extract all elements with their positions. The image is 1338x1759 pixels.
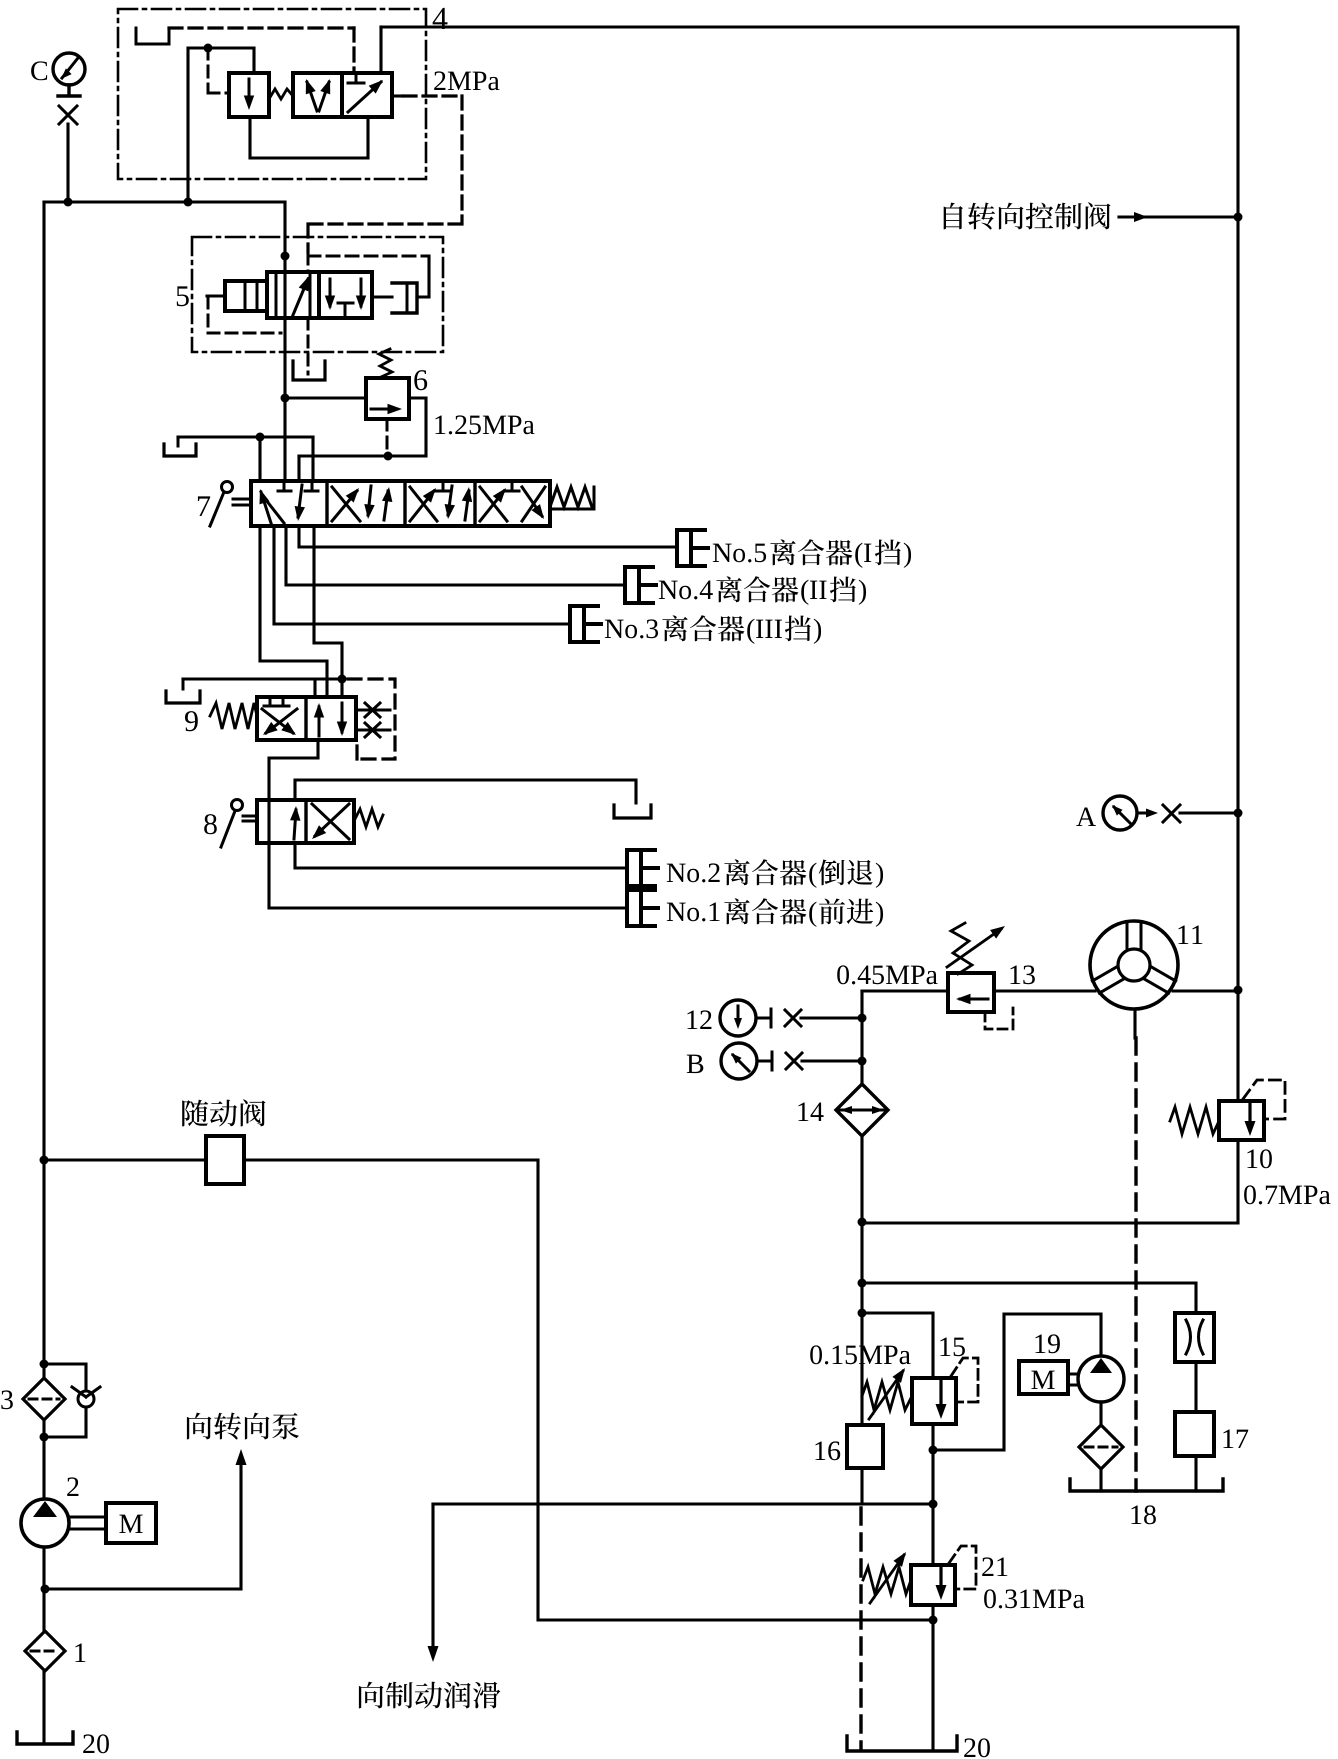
label 16 — [815, 1441, 840, 1460]
valve 9 spring — [210, 703, 257, 729]
node valve6 loop junction — [384, 452, 393, 461]
tank under valve 5 — [293, 361, 325, 380]
pilot dashed line box4 top — [169, 26, 354, 29]
label No.2 clutch — [667, 863, 720, 882]
label 0.31MPa — [984, 1589, 1084, 1608]
pump 2 — [21, 1499, 69, 1547]
wire 16 to lube line — [860, 1468, 863, 1504]
label 2MPa — [434, 71, 499, 90]
label 2 — [67, 1477, 78, 1496]
gauge A arrow symbol — [1137, 812, 1152, 815]
valve 13 pilot dashed — [985, 1008, 1013, 1029]
label 13 — [1010, 965, 1034, 984]
valve 4 spring — [269, 89, 293, 99]
wire No.3 clutch line — [274, 526, 570, 624]
dashed drain 16 to tank — [859, 1508, 862, 1748]
wire 13 to motor 11 — [994, 989, 1095, 992]
label 19 — [1035, 1334, 1059, 1353]
label 3 — [1, 1390, 13, 1409]
node y1313 junction — [858, 1309, 867, 1318]
valve 15 pilot dashed — [951, 1358, 978, 1402]
wire into valve 13 — [862, 989, 948, 992]
valve 9 pilot X ports — [356, 709, 390, 712]
reducing valve 4 cell1 — [229, 73, 269, 117]
pilot dashed in box5 — [308, 252, 429, 272]
pump 19 circle — [1078, 1356, 1124, 1402]
label 1.25MPa — [435, 415, 534, 434]
label No.3 gear CJK — [785, 615, 811, 641]
tank right of valve 8 — [614, 805, 651, 818]
node box4 supply junction — [204, 44, 213, 53]
label 11 — [1178, 926, 1202, 944]
filter 14 — [836, 1084, 888, 1136]
valve 5 drain dashed to tank — [307, 318, 310, 374]
wire box4 supply — [188, 48, 254, 202]
wire gauge 12 — [801, 1016, 862, 1019]
label 7 — [198, 496, 210, 516]
label xiang-zhi-dong-run-hua — [359, 1682, 501, 1709]
label 8 — [204, 814, 217, 834]
wire top run to right side — [381, 25, 1238, 28]
wire motor 11 to right vertical — [1173, 989, 1238, 992]
label No.5 gear CJK — [875, 539, 901, 565]
label 15 — [940, 1338, 964, 1357]
filter under pump 19 — [1079, 1425, 1123, 1469]
node gauge A junction — [1234, 809, 1243, 818]
pilot dashed to reducing valve port — [208, 48, 229, 93]
node steering junction — [1234, 213, 1243, 222]
node follower junction — [40, 1156, 49, 1165]
valve 9 pilot dashed box — [348, 679, 395, 759]
wire valve9 outlet to No.1 — [269, 740, 627, 908]
wire pump 19 loop — [933, 1314, 1101, 1450]
wire lube main vertical — [860, 991, 863, 1425]
check valve 3 — [78, 1391, 94, 1407]
label No.2 reverse CJK — [819, 859, 873, 885]
directional valve 7 body — [251, 481, 550, 526]
valve 5 left actuator — [225, 281, 267, 311]
node main/pilot junction — [281, 252, 290, 261]
valve 4 cell3 — [342, 73, 392, 117]
wire main drop through valve 5 — [283, 202, 286, 481]
wire pilot right — [417, 256, 429, 297]
label 20 right — [964, 1738, 990, 1757]
valve 10 pilot dashed — [1243, 1080, 1285, 1119]
relief valve 10 body — [1219, 1101, 1264, 1140]
valve 13 spring tilted — [951, 923, 972, 974]
label 14 — [798, 1103, 823, 1121]
wire No.5 clutch line — [299, 526, 677, 547]
label 1 — [75, 1644, 85, 1662]
label 9 — [185, 711, 198, 731]
gauge 12 circle — [720, 1000, 756, 1036]
wire No.4 clutch line — [286, 526, 625, 585]
node junction to valve 6 — [281, 394, 290, 403]
valve 7 spring — [550, 487, 594, 509]
label No.1 clutch — [667, 903, 720, 922]
actuator drain dashed — [208, 297, 281, 333]
filter 1 — [25, 1631, 65, 1671]
gauge A circle — [1103, 796, 1137, 830]
label 12 — [687, 1010, 711, 1029]
valve 21 pilot dashed — [949, 1546, 976, 1589]
clutch No.3 symbol — [570, 606, 598, 642]
node filter 3 bottom junction — [40, 1433, 49, 1442]
wire y1283 branch — [862, 1283, 1196, 1313]
label 5 — [177, 286, 189, 306]
wire brake lube arrow — [431, 1504, 434, 1652]
wire left main vertical — [42, 202, 45, 1744]
valve 7 cell3 symbols — [436, 481, 450, 491]
node y1283 junction — [858, 1279, 867, 1288]
tank left of valve 7 — [177, 437, 180, 446]
label 6 — [414, 370, 427, 390]
label 20 left — [83, 1734, 109, 1753]
label zi-zhuan-xiang-kong-zhi-fa — [944, 202, 1111, 229]
label 17 — [1223, 1430, 1248, 1448]
clutch No.1 symbol — [627, 890, 655, 926]
gauge B bar and X — [757, 1052, 772, 1070]
node valve 9 pilot junction — [338, 675, 347, 684]
gauge C circle — [53, 53, 85, 85]
wire ports into valve 7 — [260, 437, 313, 481]
node lube junction — [929, 1500, 938, 1509]
valve 9 cell2 symbols — [318, 707, 321, 736]
node lube out junction — [929, 1616, 938, 1625]
pilot drain cup in box 4 — [136, 28, 169, 44]
wire valve7 port5 down — [314, 526, 342, 697]
valve 5 pilot box — [392, 283, 417, 313]
wire valve8 top drain — [295, 780, 636, 803]
wire valve8 to No.2 — [295, 843, 627, 868]
tank left of valve 9 — [182, 679, 185, 689]
label No.4 clutch CJK — [716, 576, 798, 602]
wire follower valve line — [44, 1160, 933, 1620]
valve 8 cell2 symbol — [312, 804, 349, 839]
gauge A X — [1163, 805, 1180, 822]
valve 8 body — [257, 800, 354, 843]
gauge 12 bar and X — [756, 1009, 771, 1027]
component 17 — [1175, 1412, 1214, 1456]
wire to valve 6 — [285, 396, 366, 399]
dashed shaft line from 11 — [1133, 1009, 1136, 1038]
label B — [687, 1055, 704, 1073]
valve 9 cell1 symbols — [264, 697, 289, 706]
wire to steering pump — [45, 1460, 241, 1589]
valve 10 spring — [1170, 1107, 1219, 1134]
valve block 4 border (dash-dot) — [118, 9, 426, 179]
valve block 5 border (dash-dot) — [192, 237, 443, 352]
wire main horizontal top — [44, 200, 285, 203]
wire right vertical — [862, 27, 1238, 1223]
relief valve 6 body — [366, 378, 409, 419]
label A — [1076, 808, 1096, 826]
node motor junction — [1234, 986, 1243, 995]
node gauge 12 junction — [858, 1014, 867, 1023]
label No.3 clutch — [605, 619, 658, 638]
node gauge B junction — [858, 1057, 867, 1066]
component 16 — [847, 1425, 883, 1468]
valve 7 cell2 symbols — [332, 487, 360, 521]
node filter 3 top junction — [40, 1360, 49, 1369]
label No.3 clutch CJK — [662, 615, 744, 641]
motor M 2 — [106, 1503, 156, 1543]
node C junction — [64, 198, 73, 207]
label 0.45MPa — [837, 965, 937, 984]
node box4 drain junction — [184, 198, 193, 207]
label No.2 clutch CJK — [724, 859, 806, 885]
node pump loop junction — [929, 1446, 938, 1455]
wire 21 to tank 20 — [931, 1605, 934, 1748]
wire y1313 branch to valve 15 — [862, 1313, 933, 1378]
wire valve 9 top rail — [183, 679, 342, 697]
valve 21 spring — [863, 1567, 911, 1594]
follower valve box — [206, 1136, 244, 1184]
label 4 — [433, 8, 448, 29]
relief valve 15 body — [912, 1378, 956, 1424]
label 21 — [982, 1557, 1007, 1576]
filter 3 — [23, 1378, 65, 1420]
label No.4 clutch — [659, 581, 713, 600]
gauge C stem and bar — [58, 85, 80, 96]
label No.1 forward CJK — [819, 898, 873, 924]
valve 5 cell2 — [319, 272, 372, 318]
gauge B circle — [721, 1043, 757, 1079]
check valve branch — [44, 1364, 86, 1437]
label 18 — [1131, 1505, 1155, 1524]
tank 20 right — [847, 1736, 957, 1751]
node rail junction — [256, 433, 265, 442]
pilot dashed drop to valve 4 cell3 — [352, 28, 355, 70]
valve 9 body — [257, 697, 356, 740]
valve 6 drain dashed — [386, 419, 389, 456]
relief valve 21 body — [911, 1565, 955, 1605]
valve 4 cell2 — [293, 73, 342, 117]
wire valve7 port1 down — [260, 526, 327, 697]
wire valve4 bottom loop — [250, 117, 368, 158]
wire arrow to steering valve — [1119, 215, 1238, 218]
pilot dashed valve4 outlet — [392, 94, 403, 97]
wire pump to filter — [1099, 1402, 1102, 1425]
pump 19 link — [1068, 1374, 1078, 1385]
valve 8 spring — [354, 809, 383, 827]
wire throttle to 17 — [1194, 1362, 1197, 1412]
wire gauge A — [1180, 811, 1238, 814]
valve 6 spring — [379, 349, 392, 377]
label No.1 clutch CJK — [724, 898, 806, 924]
relief valve 13 body — [948, 973, 994, 1012]
label No.5 clutch — [713, 544, 766, 563]
wire valve4 top right to main — [379, 27, 382, 73]
valve 7 cell4 symbols — [505, 481, 519, 491]
valve 8 cell1 symbol — [294, 810, 296, 839]
wire valve 6 outlet loop — [299, 398, 426, 456]
tank 18 — [1070, 1479, 1223, 1491]
label xiang-zhuan-xiang-beng — [187, 1413, 299, 1440]
throttle component — [1175, 1313, 1214, 1362]
wire C to main — [66, 124, 69, 202]
gauge C label — [31, 61, 47, 80]
motor M 19 — [1019, 1361, 1068, 1394]
wire valve 15 outlet — [931, 1424, 934, 1565]
label sui-dong-fa — [182, 1099, 265, 1126]
torque converter 11 — [1090, 921, 1178, 1009]
pump 2 link — [69, 1517, 106, 1529]
valve 7 cell1 symbols — [278, 481, 318, 491]
valve 5 cell1 — [267, 272, 319, 318]
clutch No.5 symbol — [677, 530, 705, 566]
gauge C shutoff X — [59, 106, 77, 124]
label No.5 clutch CJK — [770, 539, 852, 565]
label 0.7MPa — [1244, 1185, 1330, 1204]
valve 15 spring — [862, 1382, 912, 1410]
label 0.15MPa — [810, 1345, 910, 1364]
wire filter to tank 18 — [1099, 1469, 1102, 1491]
clutch No.2 symbol — [627, 850, 655, 886]
wire gauge B — [802, 1059, 862, 1062]
valve 8 lever — [232, 800, 243, 811]
tank 20 left — [17, 1732, 73, 1744]
label No.4 gear CJK — [830, 576, 856, 602]
node y1222 junction — [858, 1218, 867, 1227]
clutch No.4 symbol — [625, 567, 653, 603]
node steering pump junction — [41, 1585, 50, 1594]
valve 7 lever — [222, 482, 233, 493]
wire 17 to tank 18 — [1194, 1456, 1197, 1491]
wire brake lube line — [433, 1502, 933, 1505]
wire pilot rail y437 — [178, 435, 313, 438]
label 10 — [1247, 1149, 1271, 1168]
